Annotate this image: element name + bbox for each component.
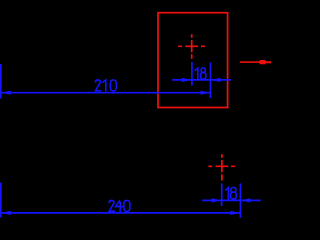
- wire dimension line: [202, 199, 261, 201]
- wire dimension line: [172, 79, 231, 81]
- arrowhead left: [1, 91, 11, 95]
- label 210: [96, 80, 117, 91]
- dimension 18 (top): [172, 62, 231, 98]
- wire dashes: [208, 154, 235, 180]
- dimension 18 (bottom): [202, 183, 261, 217]
- wire extension line left: [191, 62, 193, 85]
- arrowhead left: [212, 198, 222, 202]
- wire extension line left: [221, 183, 223, 206]
- arrowhead left: [1, 211, 11, 215]
- label 18: [195, 68, 206, 79]
- wire extension line left: [0, 64, 2, 99]
- arrowhead right: [240, 198, 250, 202]
- wire extension line right: [210, 62, 212, 98]
- arrowhead right: [230, 211, 240, 215]
- leader arrow (red, right side): [240, 60, 271, 64]
- wire solid cross: [216, 160, 229, 172]
- dimension 210: [1, 64, 211, 99]
- arrowhead left: [182, 78, 192, 82]
- wire dashes: [178, 34, 205, 59]
- arrowhead right: [211, 78, 221, 82]
- wire extension line right: [239, 183, 241, 217]
- dimension 240: [1, 183, 241, 218]
- arrowhead right: [201, 91, 211, 95]
- label 18: [226, 188, 236, 199]
- wire extension line left: [0, 183, 2, 218]
- part outline rectangle (red): [158, 13, 228, 108]
- wire solid cross: [185, 40, 198, 52]
- wire dimension line: [1, 212, 241, 214]
- center mark (hole 2): [208, 154, 235, 180]
- center mark (hole 1): [178, 34, 205, 59]
- wire dimension line: [1, 92, 211, 94]
- label 240: [109, 200, 130, 211]
